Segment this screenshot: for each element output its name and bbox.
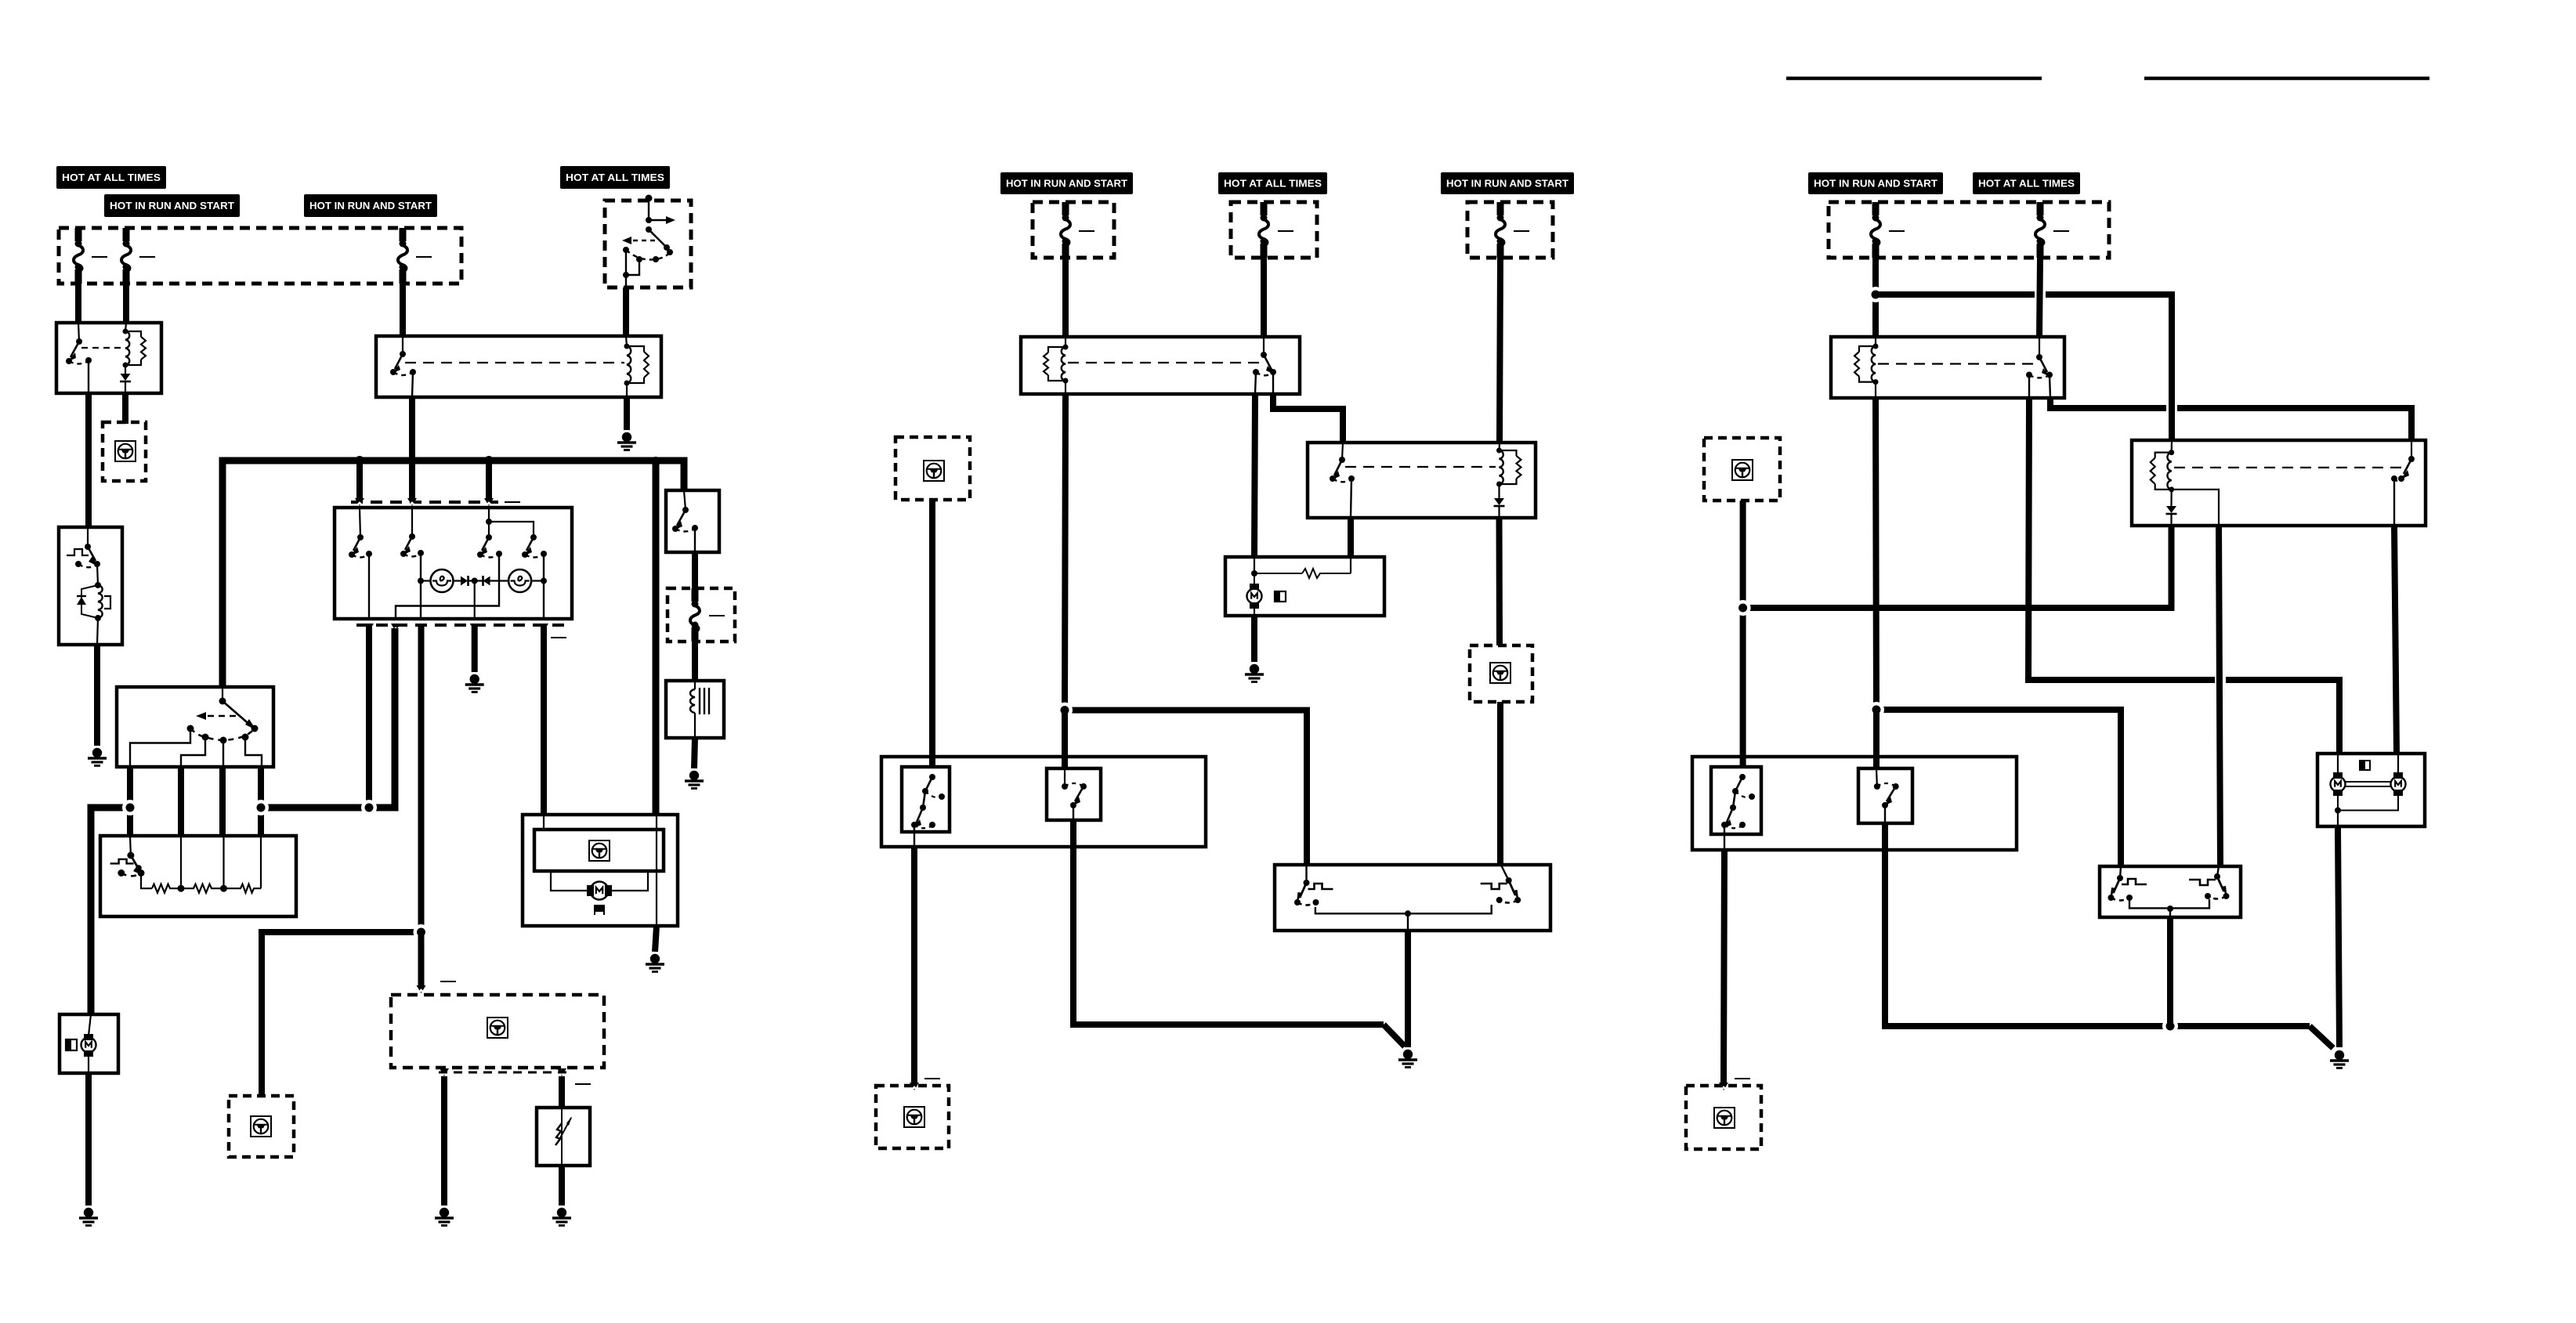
wire: washer pump to ground [85, 1073, 92, 1206]
wire: wiper motor to ground (col2) [1251, 616, 1257, 662]
steering column icon (cluster col1) [487, 1018, 508, 1038]
indicator lamp L (col1) [431, 569, 454, 592]
relay K3 switch [1068, 337, 1276, 394]
wiper mode switch (col2 inner box1) [902, 767, 950, 832]
rear wiper park switch box (col3) [2100, 866, 2241, 917]
steering column icon [115, 441, 136, 461]
relay K2 internals: switch [390, 336, 624, 397]
switch cell 2 [400, 508, 424, 619]
clockspring connector (col1 bottom, dashed) [229, 1096, 294, 1157]
connector pin (clockspring C col3) [1719, 1083, 1728, 1090]
wire: relay K1 to flasher [85, 393, 92, 527]
wiper motor internals (col2) [1247, 557, 1351, 616]
wire: rheostat to ground [559, 1166, 565, 1206]
connector pin (cluster out R) [557, 1068, 566, 1076]
ignition switch (col1, dashed) [605, 201, 691, 287]
connector line below turn/hazard switch [356, 624, 572, 627]
junction: between diodes [472, 578, 478, 584]
wire: MF switch pin1 to resistor box [127, 767, 133, 836]
junction: park switch common (col2) [1405, 910, 1411, 916]
relay K1 coil [123, 329, 146, 368]
connector pin (bus stub2) [407, 498, 417, 506]
turn signal feed bus (col1) [223, 461, 684, 687]
ground G2 (relay K2 col1) [617, 432, 636, 450]
label line (clockspring C col3) [1735, 1078, 1750, 1079]
diagonal jog to ground (col3) [2310, 1026, 2333, 1048]
wire: switch pin3 down to cluster [418, 627, 425, 932]
stub: park switch left input (col2) [1305, 865, 1307, 883]
junction: relay K3 coil wire / park feed (col2) [1057, 703, 1073, 718]
steering column icon (clockspring A col3) [1732, 460, 1753, 480]
steering column icon (col1 bottom) [251, 1116, 271, 1137]
wiper assembly inner box (col1) [534, 830, 664, 871]
wire: fuse B2 to relay K5 switch [2039, 258, 2040, 337]
ground G10 (wiper motor col2) [1245, 664, 1264, 682]
ground G12 (rear wiper col3) [2330, 1050, 2349, 1068]
junction: cell2 wire / lamp row [418, 578, 424, 584]
wire: MF pin4 to lamp-switch pin2 link [261, 628, 395, 808]
washer switch (col2 inner box2) [1047, 768, 1101, 820]
junction: link / MF pin4 wire [253, 800, 269, 815]
wire: clockspring B to park switch (col2) [1497, 702, 1503, 866]
connector line above turn/hazard switch [351, 501, 498, 504]
relay K4 switch [1330, 443, 1355, 518]
wire: flasher to ground [94, 645, 100, 746]
park switch right (col2) [1481, 877, 1521, 903]
fuse F4 (col1 in-line) [690, 588, 700, 642]
svg-text:HOT AT ALL TIMES: HOT AT ALL TIMES [62, 172, 161, 183]
fuse block (col1, dashed) [59, 228, 461, 284]
instrument cluster (col1, dashed) [391, 995, 604, 1068]
svg-text:HOT AT ALL TIMES: HOT AT ALL TIMES [566, 172, 664, 183]
connector line below cluster [439, 1072, 567, 1074]
switch cell 3 [396, 534, 502, 619]
wire: relay K6 diode to clockspring junction (col3) [1743, 526, 2172, 608]
wire: washer switch to ground run (col3) [1885, 823, 2310, 1026]
wire: relay K3 coil to switch pod (col2) [1065, 394, 1065, 710]
wire: fuse F3 to turn relay [400, 284, 406, 336]
connector pin (switch bottom x=605.7) [470, 624, 479, 631]
relay K5 coil [1854, 344, 1878, 385]
wire: relay K2 output to turn bus [409, 397, 415, 461]
rear wiper dual motor (col3) [2317, 754, 2425, 826]
wire: relay K5 NC to relay K6 switch (col3, segment 2 after hop) [2177, 408, 2411, 440]
svg-text:HOT IN RUN AND START: HOT IN RUN AND START [1006, 178, 1127, 189]
clockspring connector (col1 left, dashed) [103, 422, 146, 481]
wire: fuse F4 to horn [692, 642, 698, 681]
clockspring connector A (col2, dashed) [895, 437, 970, 500]
wire: diode junction to pin [474, 581, 476, 620]
value label line [1514, 230, 1529, 232]
relay K3 coil [1065, 337, 1066, 347]
wire: rear wiper motor to ground (col3) [2338, 826, 2339, 1047]
wire: switch S1 to fuse F4 [692, 552, 698, 588]
junction: link / switch pin1 wire [361, 800, 377, 815]
wire: relay K1 coil to clockspring [122, 393, 128, 424]
wire: fuse A to relay K3 coil [1062, 258, 1069, 337]
wire: down to washer switch (col3) [1873, 710, 1880, 768]
park switch common run (col2) [1315, 905, 1492, 913]
relay K2 (turn signal relay col1) [376, 336, 661, 397]
relay K6 coil-to-output link [2172, 490, 2219, 526]
illumination rheostat (col1) [537, 1108, 590, 1166]
wire: wiper mode switch to clockspring C (col2) [911, 847, 917, 1083]
switch S1 (col1 right) [666, 490, 719, 552]
value label line [416, 256, 432, 258]
relay K1 internals: coil [125, 323, 126, 331]
steering column icon (clockspring C col3) [1714, 1108, 1735, 1128]
junction: ground run / park switch wire (col3) [2162, 1018, 2178, 1034]
connector pin (bus stub3) [484, 498, 494, 506]
wire: relay K4 to wiper motor resistor (col2) [1348, 518, 1354, 557]
wire: relay K5 NC toward relay K6 switch (col3, segment 1) [2050, 398, 2166, 408]
washer switch (col3 inner box2) [1858, 768, 1912, 823]
switch cell 1 [349, 508, 372, 619]
turn signal / hazard switch assembly (col1) [335, 508, 572, 619]
wire: clockspring A to switch pod (col2) [929, 500, 935, 767]
relay K4 diode [1494, 498, 1504, 505]
value label line [1079, 230, 1094, 232]
multifunction switch pod (col3) [1692, 757, 2017, 850]
wire: wiper assembly to ground [655, 926, 657, 952]
value label line [139, 256, 155, 258]
park switch right (col3) [2189, 873, 2230, 899]
multifunction switch pod (col2) [881, 757, 1206, 847]
wire: relay K6 switch to rear wiper motor (col3) [2394, 526, 2397, 754]
ground G7 (washer pump col1) [79, 1208, 98, 1226]
stub: bus to connector pin3 [486, 461, 492, 499]
wire: fuse B1 to relay K5 coil [1872, 258, 1879, 337]
steering column icon (clockspring B col2) [1490, 663, 1511, 683]
relay K4 coil [1498, 443, 1500, 450]
wire: wiper mode switch to clockspring C (col3) [1724, 850, 1724, 1083]
power label: HOT AT ALL TIMES (col3) [1973, 172, 2080, 194]
wiper motor with resistor (col2) [1225, 557, 1384, 616]
ground G4 (horn col1) [685, 771, 704, 789]
value label line [2053, 230, 2069, 232]
wiper park switch / resistor box (col1) [100, 836, 296, 916]
wire: pin3 wire to cluster input [418, 932, 425, 985]
stub: bus to connector pin1 [356, 461, 363, 499]
fuse holder F4 (col1, dashed) [668, 588, 735, 642]
wire: switch pin1 down to bus2 [366, 627, 372, 806]
fuse block (col3, dashed) [1829, 202, 2109, 258]
wire: down to switch pod inner box2 (col2) [1062, 710, 1068, 768]
connector pin (cluster out L) [440, 1068, 449, 1076]
indicator lamp R (col1) [508, 569, 531, 592]
ground G3 (turn switch col1) [465, 674, 484, 692]
wire: fuse B1 junction to relay K6 coil (col3, segment 2 after hop) [2046, 295, 2172, 442]
value label line [92, 256, 107, 258]
horizontal rule 1 (top) [1786, 77, 2042, 81]
relay K4 (intermittent wiper relay col2) [1308, 443, 1536, 518]
junction: cell4 wire / lamp row [541, 578, 547, 584]
power label: HOT IN RUN AND START (col2 fuse A) [1000, 172, 1133, 194]
wiper motor assembly (col1) [523, 815, 678, 926]
fuse B (col2) [1259, 202, 1268, 258]
wire: switch pin5 down to wiper assembly [541, 627, 547, 815]
relay K1 (hazard flasher relay col1) [56, 323, 161, 393]
junction: relay K5 coil wire / park feed (col3) [1869, 702, 1884, 718]
wiper mode switch (col3 inner box1) [1711, 767, 1761, 834]
washer switch internals (col3) [1874, 768, 1899, 823]
ground G9 (rheostat col1) [552, 1208, 571, 1226]
svg-text:HOT IN RUN AND START: HOT IN RUN AND START [309, 201, 432, 211]
washer pump motor [66, 1014, 96, 1073]
wire: relay K5 coil run to park switch left (col3) [1876, 710, 2121, 866]
value label line [1889, 230, 1905, 232]
park switch left (col3) [2108, 875, 2147, 901]
wire: fuse B1 junction toward relay K6 (col3, segment 1) [1876, 291, 2035, 298]
multifunction switch (col1) [117, 687, 273, 767]
label line (clockspring C col2) [924, 1078, 940, 1079]
relay K5 (rear wiper relay col3) [1831, 337, 2064, 398]
relay K6 coil [2151, 450, 2174, 492]
horn coil symbol [690, 681, 709, 738]
wire: relay K3 to relay K4 switch (col2) [1273, 394, 1343, 443]
junction: fuse B1 wire / relay K6 feed [1868, 287, 1883, 302]
connector label line (col1 switch top) [505, 501, 520, 503]
label line (rheostat col1) [575, 1083, 591, 1085]
wire: fuse F2 to hazard relay coil [123, 284, 129, 323]
clockspring connector C (col3 bottom, dashed) [1686, 1086, 1761, 1149]
junction: clockspring wire / relay K6 diode (col3) [1735, 600, 1751, 616]
wire: washer switch to ground run (col2) [1073, 820, 1384, 1025]
relay K6 switch [2174, 440, 2415, 526]
combination flasher unit (col1) [59, 527, 122, 645]
connector label line (col1 switch bottom) [551, 637, 566, 638]
fuse C (col2) [1496, 202, 1505, 258]
switch cell 4 [522, 534, 547, 619]
connector pin (switch bottom x=537) [416, 624, 425, 631]
wire: fuse B to relay K3 switch [1261, 258, 1267, 337]
connector pin (clockspring C col2) [910, 1083, 919, 1090]
multifunction switch internals (rotary) [130, 687, 262, 767]
wiper park switch box (col2) [1275, 865, 1550, 931]
flasher internals [67, 527, 110, 645]
fuse holder B (col2, dashed) [1231, 202, 1317, 258]
wire: MF switch pin4 to resistor box [258, 767, 264, 836]
wire: relay K4 diode to clockspring B (col2) [1496, 518, 1503, 645]
label line (cluster col1) [440, 981, 456, 982]
junction: bus / relay output [407, 456, 417, 465]
power label: HOT AT ALL TIMES (col2 fuse B) [1218, 172, 1327, 194]
wire: MF switch pin2 to resistor box [178, 767, 184, 836]
fuse holder A (col2, dashed) [1033, 202, 1114, 258]
wire: park switch to ground (col2) [1405, 931, 1411, 1047]
wire: relay K5 coil to switch pod (col3) [1876, 398, 1876, 710]
wiper mode switch internals (col2) [911, 774, 945, 832]
ground G8 (cluster col1) [435, 1208, 454, 1226]
ground G1 (flasher col1) [88, 748, 107, 766]
junction: bus to lamp stub3 [484, 456, 494, 465]
wire: switch pin4 to ground [472, 627, 478, 672]
wire: ignition switch to turn relay coil [623, 287, 629, 336]
rheostat symbol [555, 1108, 572, 1166]
svg-text:HOT IN RUN AND START: HOT IN RUN AND START [110, 201, 234, 211]
rear wiper motor internals (col3) [2331, 754, 2406, 826]
wire: bus down to wiper assembly (col1) [653, 461, 660, 815]
relay K5 coil [1875, 337, 1876, 346]
fuse F3 (col1) [398, 228, 407, 284]
diagonal jog to ground (col2) [1384, 1025, 1405, 1046]
power label: HOT IN RUN AND START (col2 fuse C) [1441, 172, 1574, 194]
relay K2 internals: coil [626, 336, 627, 346]
fuse F1 (col1) [74, 228, 83, 284]
relay K6 (rear intermittent relay col3) [2132, 440, 2426, 526]
switch S1 internals [672, 490, 698, 552]
wiper motor M1 (col1) [551, 871, 648, 916]
switch cell 3 and 4 feed [486, 508, 534, 537]
clockspring connector A (col3, dashed) [1704, 438, 1780, 501]
steering column icon (clockspring A col2) [924, 461, 944, 481]
relay K2 coil [624, 344, 649, 386]
stub: park switch right input (col2) [1501, 865, 1509, 880]
stub: bus to connector pin2 [409, 461, 415, 499]
relay K3 (wiper on/off relay col2) [1021, 337, 1300, 394]
relay K5 switch [1878, 337, 2053, 398]
junction: park switch common (col3) [2167, 905, 2173, 912]
park switch left (col2) [1294, 880, 1333, 905]
resistor box internals [110, 836, 261, 893]
connector pin (bus stub1) [355, 498, 364, 506]
relay K4 dashed link [1345, 466, 1496, 468]
horizontal rule 2 (top) [2144, 77, 2429, 81]
stub: park switch left input (col3) [2120, 866, 2121, 878]
horn (col1) [666, 681, 724, 738]
wire: park switch to ground run (col3) [2167, 917, 2173, 1026]
wire: clockspring A to switch pod (col3) [1740, 501, 1746, 767]
steering column icon (clockspring C col2) [904, 1107, 924, 1127]
relay K1 internals: switch [66, 323, 123, 393]
power label: HOT IN RUN AND START (col1 fuse2) [104, 194, 240, 217]
ground G5 (wiper assembly col1) [646, 954, 664, 972]
power label: HOT IN RUN AND START (col3) [1808, 172, 1943, 194]
wire: cluster to rheostat [559, 1076, 565, 1108]
svg-text:HOT AT ALL TIMES: HOT AT ALL TIMES [1978, 178, 2075, 189]
relay K3 coil [1044, 345, 1068, 384]
connector pin (cluster input col1) [417, 985, 426, 993]
relay K6 diode [2166, 506, 2176, 513]
clockspring connector C (col2 bottom, dashed) [876, 1086, 949, 1148]
power label: HOT AT ALL TIMES (col1 right) [560, 166, 670, 189]
fuse holder C (col2, dashed) [1467, 202, 1553, 258]
svg-text:HOT AT ALL TIMES: HOT AT ALL TIMES [1224, 178, 1322, 189]
svg-text:HOT IN RUN AND START: HOT IN RUN AND START [1814, 178, 1937, 189]
connector pin (switch bottom x=505) [391, 624, 400, 631]
relay K1 diode [121, 374, 131, 381]
power label: HOT IN RUN AND START (col1 fuse3) [304, 194, 437, 217]
ignition switch internals [622, 195, 675, 288]
wire: relay K3 to wiper motor (col2) [1254, 394, 1255, 557]
diode D2 (points left) [482, 576, 484, 586]
wire: assembly input1 [543, 815, 545, 830]
steering column icon (wiper assembly col1) [589, 840, 610, 861]
value label line [709, 615, 725, 616]
stub: park switch right input (col3) [2217, 866, 2219, 877]
wire: relay K5 common toward rear wiper motor (col3, segment 1) [2028, 398, 2215, 680]
wire: cluster feed jog to clockspring (col1) [262, 932, 421, 1096]
wire: MF switch pin3 (unused tap) [219, 767, 226, 836]
junction: pump feed / MF pin1 wire [122, 800, 138, 815]
junction: pin3 wire / jog wire [414, 924, 429, 940]
diode D1 (points right) [461, 577, 468, 586]
relay K6 coil [2171, 440, 2173, 453]
wire: horn to ground [694, 738, 695, 768]
svg-text:HOT IN RUN AND START: HOT IN RUN AND START [1446, 178, 1568, 189]
wiper mode switch internals (col3) [1721, 774, 1755, 834]
wire: relay K2 coil to ground [624, 397, 630, 430]
fuse B1 (col3) [1871, 202, 1880, 258]
fuse F2 (col1) [121, 228, 131, 284]
washer pump (col1) [60, 1014, 118, 1073]
fuse B2 (col3) [2035, 202, 2045, 258]
connector pin (switch bottom x=471) [364, 624, 374, 631]
power label: HOT AT ALL TIMES (col1 left) [56, 166, 166, 189]
fuse A (col2) [1061, 202, 1070, 258]
wire: fuse C to relay K4 coil [1500, 258, 1500, 442]
relay K4 coil [1496, 448, 1521, 487]
value label line [1278, 230, 1293, 232]
wire: fuse F1 to hazard relay [75, 284, 81, 323]
wire: cluster to ground left [441, 1076, 447, 1206]
wire: relay K5 common to rear wiper motor (col3, segment 2 after hop) [2226, 680, 2339, 754]
wire: relay K6 output to park switch right (col3) [2219, 526, 2220, 866]
wire: lamp row left [421, 580, 430, 581]
wire: washer pump feed (MF pin1 to pump) [91, 808, 130, 1014]
washer switch internals (col2) [1062, 768, 1087, 820]
junction: bus to wiper assembly branch [651, 457, 660, 466]
ground G11 (park switch col2) [1398, 1050, 1417, 1068]
wire: switch-pod feed to park switch left (col2) [1065, 710, 1307, 866]
wire: assembly input2 through inner box [656, 815, 657, 871]
connector pin (switch bottom x=694) [539, 624, 548, 631]
park switch common run (col3) [2129, 899, 2209, 908]
clockspring connector B (col2, dashed) [1470, 645, 1532, 702]
junction: bus to lamp stub1 [355, 456, 364, 465]
